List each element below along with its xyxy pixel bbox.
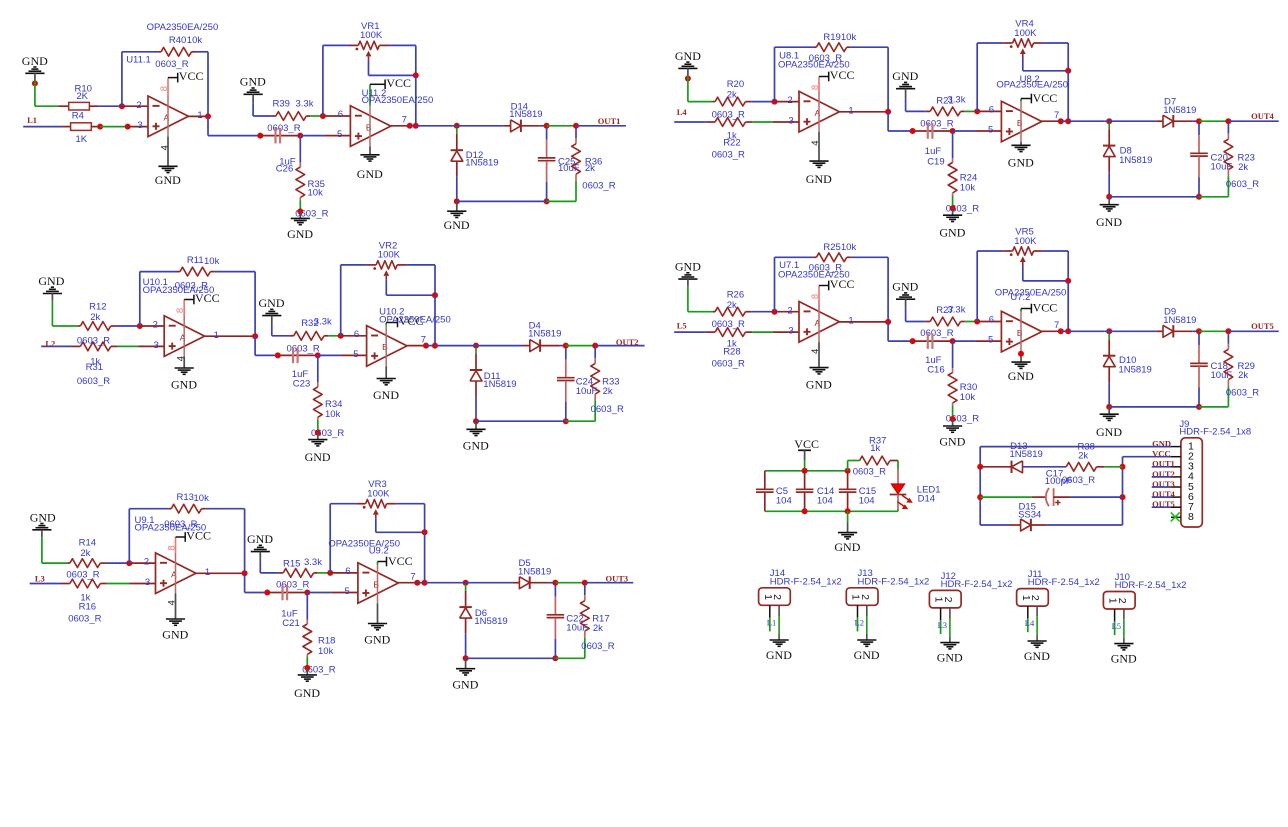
junction dot below B xyxy=(1018,351,1024,357)
svg-text:6: 6 xyxy=(338,109,343,120)
wire xyxy=(99,105,122,107)
junction dot bottom left xyxy=(1106,194,1112,200)
junction dot xyxy=(950,128,956,134)
svg-text:1N5819: 1N5819 xyxy=(1119,155,1152,166)
svg-text:8: 8 xyxy=(1188,511,1194,523)
J10 pin 2 line xyxy=(1123,609,1125,620)
junction dot bottom left xyxy=(1106,404,1112,410)
wire xyxy=(318,572,331,574)
wire xyxy=(887,322,889,341)
svg-text:GND: GND xyxy=(806,377,832,391)
svg-text:OPA2350EA/250: OPA2350EA/250 xyxy=(328,539,400,550)
svg-text:GND: GND xyxy=(937,651,963,665)
capacitor C20 xyxy=(1190,123,1208,197)
junction dot output A xyxy=(242,570,248,576)
svg-text:GND: GND xyxy=(1096,425,1122,439)
svg-text:GND: GND xyxy=(247,532,273,546)
junction dot res branch xyxy=(1225,118,1231,124)
svg-text:L4: L4 xyxy=(677,107,688,117)
svg-text:R4: R4 xyxy=(72,111,84,122)
junction dot cap branch xyxy=(544,123,550,129)
svg-text:D14: D14 xyxy=(918,494,935,505)
svg-text:2k: 2k xyxy=(593,623,603,634)
resistor R36 xyxy=(572,128,581,202)
J14 pin 2 line xyxy=(778,605,780,616)
wire feedback top xyxy=(129,508,168,510)
junction dot cap bottom xyxy=(1196,194,1202,200)
ground output section ch1 xyxy=(444,201,470,232)
VCC symbol op-amp B xyxy=(386,314,423,328)
svg-text:0603_R: 0603_R xyxy=(712,150,745,161)
svg-text:2: 2 xyxy=(942,597,954,603)
capacitor C23 xyxy=(278,348,318,364)
J9 pin 4 stub xyxy=(1171,476,1181,478)
VCC symbol op-amp A xyxy=(819,277,854,291)
wire xyxy=(1199,196,1228,198)
svg-text:GND: GND xyxy=(171,377,197,391)
svg-text:0603_R: 0603_R xyxy=(164,519,197,530)
pin 3 stub xyxy=(773,331,799,333)
pin line B to gnd xyxy=(385,366,387,378)
junction dot bottom left xyxy=(473,418,479,424)
junction dot bottom left xyxy=(454,198,460,204)
resistor R29 xyxy=(1224,333,1233,407)
junction dot shunt diode branch xyxy=(473,343,479,349)
wire xyxy=(1067,281,1069,331)
wire xyxy=(905,98,907,111)
svg-text:OUT4: OUT4 xyxy=(1251,111,1274,121)
pin 7 stub xyxy=(391,125,410,127)
connector J10 xyxy=(1103,592,1135,610)
wire xyxy=(259,561,261,573)
wire xyxy=(452,125,504,127)
junction dot res branch xyxy=(582,580,588,586)
wire xyxy=(566,420,595,422)
svg-text:C19: C19 xyxy=(927,157,944,168)
svg-text:2k: 2k xyxy=(1238,370,1248,381)
junction dot xyxy=(125,124,131,130)
svg-text:SS34: SS34 xyxy=(1018,509,1041,520)
junction dot VR bottom xyxy=(1065,278,1071,284)
capacitor C16 xyxy=(913,333,953,349)
wire xyxy=(300,135,324,137)
svg-text:0603_R: 0603_R xyxy=(1226,179,1259,190)
junction dot xyxy=(304,590,310,596)
junction dot xyxy=(297,133,303,139)
pin 3 stub xyxy=(138,345,164,347)
op-amp U8.1 (unit A) xyxy=(799,91,839,132)
junction dot ch4 gnd input xyxy=(685,76,691,82)
ground J14 xyxy=(766,640,792,662)
pin 1 stub xyxy=(839,111,888,113)
potentiometer VR4 xyxy=(977,39,1068,112)
svg-text:R20: R20 xyxy=(727,79,744,90)
svg-text:0603_R: 0603_R xyxy=(920,118,953,129)
op-amp U11.1 (unit A) xyxy=(148,96,188,137)
wire stub OUT3 xyxy=(1152,486,1171,488)
svg-text:5: 5 xyxy=(345,586,350,597)
pin 4 line xyxy=(175,594,177,620)
svg-text:2: 2 xyxy=(1029,595,1041,601)
junction dot output node xyxy=(432,343,438,349)
pin 1 stub xyxy=(205,335,256,337)
svg-text:VCC: VCC xyxy=(1033,301,1058,315)
J12 pin 2 line xyxy=(949,608,951,619)
svg-text:100K: 100K xyxy=(360,30,383,41)
wire xyxy=(196,51,209,53)
ground under R30 xyxy=(939,419,965,448)
capacitor C19 xyxy=(913,123,953,139)
svg-text:R13: R13 xyxy=(177,492,194,503)
svg-text:B: B xyxy=(382,342,388,352)
wire stub OUT2 xyxy=(1152,476,1171,478)
wire xyxy=(435,345,472,347)
wire feedback vertical xyxy=(774,47,776,101)
svg-text:2: 2 xyxy=(787,305,792,316)
svg-text:0603_R: 0603_R xyxy=(582,181,615,192)
svg-text:1N5819: 1N5819 xyxy=(1163,315,1196,326)
svg-text:2: 2 xyxy=(859,594,871,600)
wire xyxy=(751,311,774,313)
pin 6 stub xyxy=(977,110,1001,112)
junction dot output A xyxy=(252,333,258,339)
svg-text:OPA2350EA/250: OPA2350EA/250 xyxy=(996,80,1068,91)
wire xyxy=(52,325,78,327)
connector J11 xyxy=(1017,589,1049,607)
svg-text:0603_R: 0603_R xyxy=(1226,388,1259,399)
capacitor C5 xyxy=(756,471,774,512)
svg-text:GND: GND xyxy=(452,678,478,692)
resistor R22 xyxy=(674,118,752,127)
svg-text:100K: 100K xyxy=(367,489,390,500)
junction dot cap bottom xyxy=(552,655,558,661)
pin power stub B xyxy=(369,84,371,106)
ground (input bias) ch3 xyxy=(30,510,56,537)
resistor R12 xyxy=(78,322,117,331)
svg-text:1K: 1K xyxy=(76,134,88,145)
pin power stub B xyxy=(377,562,379,565)
svg-text:0603_R: 0603_R xyxy=(712,319,745,330)
svg-text:OPA2350EA/250: OPA2350EA/250 xyxy=(362,95,434,106)
diode D11 shunt xyxy=(470,348,482,397)
svg-text:0603_R: 0603_R xyxy=(77,336,110,347)
svg-text:104: 104 xyxy=(817,495,833,506)
resistor R15 xyxy=(279,569,318,578)
svg-text:10k: 10k xyxy=(841,32,857,43)
svg-text:2k: 2k xyxy=(1078,450,1088,461)
wire xyxy=(106,562,129,564)
J9 pin 3 stub xyxy=(1171,466,1181,468)
svg-text:GND: GND xyxy=(1008,155,1034,169)
resistor R40 feedback xyxy=(158,47,195,56)
ground (input bias) ch2 xyxy=(38,274,64,301)
junction dot bottom left xyxy=(463,655,469,661)
wire xyxy=(688,311,713,313)
junction dot cap bottom xyxy=(544,198,550,204)
svg-text:7: 7 xyxy=(402,115,407,126)
svg-text:C21: C21 xyxy=(282,618,299,629)
wire xyxy=(1068,330,1105,332)
wire xyxy=(888,130,913,132)
J9 pin 8 stub xyxy=(1171,516,1181,518)
junction dot pin7 xyxy=(1058,328,1064,334)
svg-text:R22: R22 xyxy=(723,137,740,148)
capacitor C14 xyxy=(796,471,814,512)
svg-text:U11.1: U11.1 xyxy=(126,55,151,66)
svg-text:0603_R: 0603_R xyxy=(66,570,99,581)
wire xyxy=(475,397,477,422)
svg-text:2k: 2k xyxy=(603,386,613,397)
svg-text:C23: C23 xyxy=(293,379,310,390)
pin 1 stub xyxy=(188,115,208,117)
wire feedback vertical xyxy=(139,272,141,326)
wire xyxy=(804,460,806,471)
wire xyxy=(965,321,978,323)
wire xyxy=(887,47,889,112)
svg-text:OUT1: OUT1 xyxy=(598,116,621,126)
wire xyxy=(953,130,976,132)
wire xyxy=(1108,382,1110,407)
svg-text:OPA2350EA/250: OPA2350EA/250 xyxy=(995,288,1067,299)
junction dot VR bottom xyxy=(422,529,428,535)
svg-text:1N5819: 1N5819 xyxy=(465,158,498,169)
wire xyxy=(434,295,436,345)
wire xyxy=(416,125,453,127)
svg-text:GND: GND xyxy=(834,540,860,554)
svg-text:4: 4 xyxy=(159,145,170,150)
svg-text:VCC: VCC xyxy=(1033,91,1058,105)
wire feedback top xyxy=(140,271,177,273)
wire xyxy=(965,110,978,112)
junction dot pin2 node xyxy=(772,309,778,315)
junction dot cap bottom xyxy=(563,418,569,424)
diode D10 shunt xyxy=(1103,333,1115,382)
svg-text:2k: 2k xyxy=(1238,162,1248,173)
wire xyxy=(116,325,139,327)
junction dot shunt diode branch xyxy=(463,580,469,586)
svg-text:R19: R19 xyxy=(823,32,840,43)
pin 5 stub xyxy=(341,354,367,356)
svg-text:GND: GND xyxy=(373,388,399,402)
svg-text:OUT2: OUT2 xyxy=(616,337,639,347)
resistor R30 xyxy=(948,341,957,419)
svg-text:4: 4 xyxy=(810,140,821,145)
svg-text:2: 2 xyxy=(787,95,792,106)
svg-text:R18: R18 xyxy=(318,635,335,646)
pin line B to gnd xyxy=(377,603,379,623)
svg-text:GND: GND xyxy=(357,167,383,181)
svg-text:6: 6 xyxy=(354,329,359,340)
wire xyxy=(107,583,130,585)
VCC symbol op-amp A xyxy=(176,528,211,542)
wire xyxy=(244,509,246,574)
svg-text:5: 5 xyxy=(988,335,993,346)
svg-text:1N5819: 1N5819 xyxy=(528,328,561,339)
svg-text:R16: R16 xyxy=(79,602,96,613)
svg-text:0603_R: 0603_R xyxy=(155,59,188,70)
resistor R33 xyxy=(591,348,600,422)
svg-text:2k: 2k xyxy=(727,300,737,311)
J11 pin 2 line xyxy=(1036,606,1038,617)
svg-text:0603_R: 0603_R xyxy=(853,466,886,477)
wire xyxy=(1228,120,1278,122)
wire xyxy=(752,121,773,123)
pin 2 stub xyxy=(775,101,800,103)
resistor R23 xyxy=(1224,123,1233,197)
svg-text:GND: GND xyxy=(1008,369,1034,383)
svg-text:3: 3 xyxy=(145,577,150,588)
junction dot shunt diode branch xyxy=(454,123,460,129)
wire xyxy=(566,345,595,347)
junction dot res branch xyxy=(573,123,579,129)
ground output section ch4 xyxy=(1096,197,1122,229)
svg-text:VCC: VCC xyxy=(388,554,413,568)
wire xyxy=(595,345,644,347)
svg-text:0603_R: 0603_R xyxy=(287,344,320,355)
wire xyxy=(255,354,278,356)
wire right rail xyxy=(1122,467,1124,525)
svg-text:R12: R12 xyxy=(89,302,106,313)
wire xyxy=(207,52,209,117)
junction dot pin2 node xyxy=(119,103,125,109)
svg-text:8: 8 xyxy=(175,308,186,313)
junction dot cap branch xyxy=(1196,328,1202,334)
resistor R27 xyxy=(926,317,965,326)
ground J10 xyxy=(1111,644,1137,666)
wire bottom rail xyxy=(1109,406,1199,408)
junction dot xyxy=(977,494,983,500)
capacitor C17 polarized xyxy=(980,488,1122,506)
svg-text:GND: GND xyxy=(854,648,880,662)
junction dot pin2 node xyxy=(772,99,778,105)
svg-text:R25: R25 xyxy=(823,242,840,253)
svg-text:6: 6 xyxy=(989,315,994,326)
wire xyxy=(328,335,341,337)
svg-text:HDR-F-2.54_1x2: HDR-F-2.54_1x2 xyxy=(858,576,930,587)
VCC symbol op-amp B xyxy=(1021,91,1057,105)
wire bottom rail xyxy=(457,200,547,202)
ground (R39 bias) ch4 xyxy=(892,69,918,98)
wire xyxy=(100,126,128,128)
svg-text:L3: L3 xyxy=(938,620,947,630)
svg-text:10k: 10k xyxy=(308,188,324,199)
ground J12 xyxy=(937,643,963,665)
wire xyxy=(117,345,138,347)
ground output section ch5 xyxy=(1096,407,1122,439)
wire xyxy=(415,75,417,125)
svg-text:0603_R: 0603_R xyxy=(276,580,309,591)
svg-text:L1: L1 xyxy=(767,617,776,627)
svg-text:B: B xyxy=(1017,118,1023,128)
resistor R28 xyxy=(674,328,752,337)
wire xyxy=(34,81,36,107)
svg-text:1uF: 1uF xyxy=(925,146,942,157)
J9 pin 2 stub xyxy=(1171,456,1181,458)
junction dot output node xyxy=(1065,328,1071,334)
svg-text:2: 2 xyxy=(136,100,141,111)
junction dot ch1 gnd input xyxy=(32,80,38,86)
svg-text:6: 6 xyxy=(989,105,994,116)
svg-text:0603_R: 0603_R xyxy=(712,109,745,120)
wire xyxy=(271,325,273,336)
resistor R34 xyxy=(313,355,322,432)
junction dot xyxy=(910,338,916,344)
J9 pin 6 stub xyxy=(1171,496,1181,498)
svg-text:GND: GND xyxy=(463,439,489,453)
pin 5 stub xyxy=(324,135,350,137)
svg-text:1N5819: 1N5819 xyxy=(509,109,542,120)
pin line B to gnd xyxy=(369,146,371,154)
pin power stub B xyxy=(385,323,387,326)
pin 4 line xyxy=(818,132,820,161)
svg-text:2: 2 xyxy=(771,594,783,600)
svg-text:GND: GND xyxy=(259,296,285,310)
svg-text:10k: 10k xyxy=(204,256,220,267)
wire xyxy=(752,331,773,333)
resistor R16 xyxy=(30,579,107,588)
J9 pin 1 stub xyxy=(1171,446,1181,448)
svg-text:3.3k: 3.3k xyxy=(948,304,966,315)
svg-text:GND: GND xyxy=(38,274,64,288)
svg-text:4: 4 xyxy=(810,349,821,354)
svg-text:0603_R: 0603_R xyxy=(175,281,208,292)
pin 2 stub xyxy=(140,325,164,327)
junction dot output node xyxy=(1065,118,1071,124)
svg-text:L5: L5 xyxy=(1112,621,1121,631)
wire xyxy=(465,634,467,659)
potentiometer VR3 xyxy=(330,500,424,573)
ground (input bias) ch4 xyxy=(675,49,701,76)
op-amp U10.1 (unit A) xyxy=(164,316,204,357)
wire xyxy=(1199,406,1228,408)
svg-text:0603_R: 0603_R xyxy=(809,263,842,274)
resistor R32 xyxy=(289,331,328,340)
pin power stub B xyxy=(1020,99,1022,102)
svg-text:3: 3 xyxy=(154,340,159,351)
pin 8 power stub xyxy=(818,286,820,302)
wire xyxy=(206,508,245,510)
svg-text:10k: 10k xyxy=(960,183,976,194)
potentiometer VR2 xyxy=(341,261,435,336)
wire xyxy=(1105,120,1157,122)
svg-text:GND: GND xyxy=(30,510,56,524)
op-amp U9.2 (unit B) xyxy=(358,563,398,604)
pin 3 stub xyxy=(128,126,148,128)
svg-text:L2: L2 xyxy=(855,617,864,627)
wire xyxy=(245,592,268,594)
junction dot pin7 xyxy=(1058,118,1064,124)
wire xyxy=(244,573,246,592)
junction dot xyxy=(1120,494,1126,500)
svg-text:8: 8 xyxy=(810,294,821,299)
ground under R24 xyxy=(939,208,965,239)
wire xyxy=(424,532,426,582)
wire xyxy=(687,286,689,311)
svg-text:100K: 100K xyxy=(378,250,401,261)
junction dot VR bottom xyxy=(413,72,419,78)
pin power stub B xyxy=(1020,309,1022,312)
svg-text:3: 3 xyxy=(788,326,793,337)
ground under op-amp A ch5 xyxy=(806,368,832,392)
svg-text:1N5819: 1N5819 xyxy=(1163,105,1196,116)
svg-text:B: B xyxy=(373,579,379,589)
resistor R35 xyxy=(296,136,305,212)
junction dot pin7 xyxy=(414,580,420,586)
pin 5 stub xyxy=(332,592,358,594)
ground output section ch3 xyxy=(452,658,478,691)
ground under R34 xyxy=(305,433,331,464)
svg-text:2k: 2k xyxy=(585,163,595,174)
